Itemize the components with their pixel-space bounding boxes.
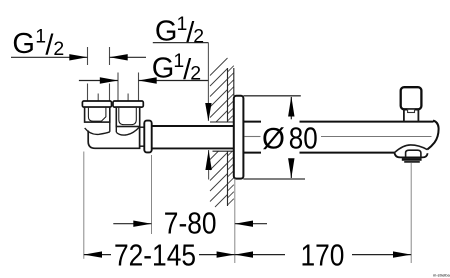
svg-text:G: G [12,28,35,60]
svg-text:72-145: 72-145 [114,239,196,273]
svg-text:2: 2 [53,38,64,60]
svg-text:2: 2 [193,26,204,48]
svg-text:m-strelba.ru: m-strelba.ru [433,273,450,278]
svg-text:80: 80 [289,121,318,156]
svg-text:2: 2 [190,63,201,85]
svg-text:170: 170 [301,239,345,273]
svg-text:G: G [152,53,175,85]
svg-text:G: G [155,16,178,48]
svg-text:7-80: 7-80 [164,206,217,240]
svg-text:Ø: Ø [262,123,285,156]
